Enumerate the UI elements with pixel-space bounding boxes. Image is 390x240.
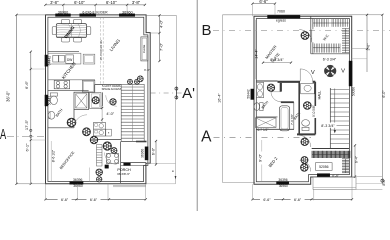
wall hall bath west xyxy=(298,82,300,135)
dim tick xyxy=(282,198,284,200)
porch B inner line xyxy=(313,187,356,189)
svg-text:8'-3 3/4": 8'-3 3/4" xyxy=(321,124,335,128)
dryer xyxy=(94,129,106,136)
wall hall north xyxy=(95,83,121,85)
table wood grain xyxy=(57,24,86,37)
dim line 6'-4 vertical xyxy=(354,145,356,176)
svg-text:36'-0": 36'-0" xyxy=(6,91,11,102)
dim tick top xyxy=(126,4,128,6)
dim tick xyxy=(30,68,32,70)
wall hall south xyxy=(94,139,121,141)
plants above stairs xyxy=(127,79,133,85)
kitchen counter top xyxy=(48,53,81,64)
vanity master double xyxy=(256,82,263,97)
svg-text:B: B xyxy=(201,22,211,39)
svg-text:4'-0": 4'-0" xyxy=(106,111,114,116)
hall vanity xyxy=(301,83,315,93)
svg-text:36396: 36396 xyxy=(278,178,287,182)
dim ext top right xyxy=(352,14,382,16)
closet shelves xyxy=(97,145,103,166)
dim tick xyxy=(155,163,157,165)
section line B dash-dot xyxy=(213,29,390,31)
dim tick xyxy=(158,14,160,16)
dim tick xyxy=(155,140,157,142)
svg-text:A: A xyxy=(201,128,212,145)
dim tick xyxy=(15,183,17,185)
dim tick xyxy=(15,14,17,16)
plant master bath xyxy=(267,84,275,92)
dim line right vertical xyxy=(159,15,161,61)
line to section A' xyxy=(175,15,177,87)
window slider 6-0X6-8 top xyxy=(80,14,96,17)
dim ext vertical xyxy=(62,5,64,15)
lower floor outline bottom xyxy=(223,182,256,184)
dim tick xyxy=(158,60,160,62)
svg-text:6-7 1/2": 6-7 1/2" xyxy=(257,128,268,132)
svg-text:SPACE ACCESS: SPACE ACCESS xyxy=(102,87,122,91)
door arc bed2 xyxy=(300,161,311,172)
svg-text:4'-0": 4'-0" xyxy=(158,19,163,28)
svg-text:14'-4": 14'-4" xyxy=(254,49,258,59)
sheet divider line xyxy=(196,0,198,211)
stair left wall B xyxy=(329,88,331,149)
window 36960 bottom wall xyxy=(70,182,83,185)
media cabinet xyxy=(141,37,148,61)
dim ext 48.7 xyxy=(352,48,367,50)
plants bed/office xyxy=(96,169,103,176)
toilet hall bath xyxy=(302,127,309,130)
dim tick xyxy=(354,144,356,146)
svg-text:V: V xyxy=(311,70,315,76)
svg-text:A': A' xyxy=(182,85,195,102)
dim ext right corner xyxy=(146,14,176,16)
porch deck edge xyxy=(113,184,146,186)
plant bed2 door xyxy=(301,156,309,164)
svg-text:50056: 50056 xyxy=(352,87,356,96)
window 64442 left wall upper xyxy=(45,55,48,66)
water heater box xyxy=(106,129,112,136)
dim text 6'-6" xyxy=(58,197,72,202)
WC hatch right (clothes) xyxy=(342,28,349,30)
dim tick top xyxy=(44,4,46,6)
wall kitchen north xyxy=(48,51,79,53)
door threshold black xyxy=(105,165,109,168)
dim tick xyxy=(76,198,78,200)
svg-text:6'-6": 6'-6" xyxy=(61,198,69,202)
svg-text:16'-4": 16'-4" xyxy=(217,93,221,103)
svg-text:36960: 36960 xyxy=(140,149,144,158)
stair treads B xyxy=(330,89,349,91)
dim ext y140 xyxy=(31,139,46,141)
line x175.5 lower xyxy=(175,100,177,184)
dim ext verticals top B xyxy=(252,4,254,17)
svg-text:52056: 52056 xyxy=(319,165,329,169)
svg-text:6'-10": 6'-10" xyxy=(74,0,85,5)
dim tick xyxy=(251,198,253,200)
dim line interior left vertical xyxy=(30,52,32,184)
wall bath1 north xyxy=(48,90,89,92)
svg-text:50442: 50442 xyxy=(246,89,250,98)
svg-text:6'-6": 6'-6" xyxy=(90,198,98,202)
dim arrows 8-8 xyxy=(263,62,291,64)
window 36960 right wall porch xyxy=(145,147,148,160)
door arc hall entry xyxy=(106,95,117,106)
window tag 52056 box xyxy=(316,163,333,171)
dim ext vertical xyxy=(126,5,128,15)
dim ext vertical xyxy=(95,5,97,15)
svg-text:6'-6": 6'-6" xyxy=(294,198,302,202)
closet hatch side xyxy=(342,158,349,160)
wall: plan A exterior outer face xyxy=(46,15,151,184)
kitchen sink xyxy=(53,55,59,62)
dim small line hall xyxy=(101,105,103,122)
wall hall mid xyxy=(102,92,104,106)
dim line bed2 interior xyxy=(261,140,263,182)
wall hall bath south xyxy=(297,133,315,135)
svg-text:media: media xyxy=(142,45,146,54)
svg-text:3'-0": 3'-0" xyxy=(144,68,150,72)
wall mbath mid xyxy=(256,116,277,118)
kitchen peninsula xyxy=(83,54,95,64)
WC hatch top (clothes) xyxy=(312,19,314,27)
toilet bath1 xyxy=(50,93,57,96)
dim text 6'-6" xyxy=(291,197,305,202)
stove with burners xyxy=(54,80,69,88)
stair up line with arrow xyxy=(334,89,336,131)
section line A' dash-dot xyxy=(151,92,183,94)
plant hall south door xyxy=(301,138,309,146)
plants hall south xyxy=(82,127,91,136)
svg-text:6'-0": 6'-0" xyxy=(382,90,386,98)
window 50442 left wall xyxy=(251,89,254,100)
dim tick xyxy=(310,198,312,200)
svg-text:36 3/8'-6": 36 3/8'-6" xyxy=(117,172,130,176)
ceiling fan xyxy=(325,66,335,76)
bathtub xyxy=(279,106,289,131)
dim text 9'-0 rotated xyxy=(259,152,264,165)
svg-text:3'-8": 3'-8" xyxy=(132,0,141,5)
dim tick xyxy=(108,198,110,200)
svg-text:DW: DW xyxy=(67,58,72,62)
dim ext top-left xyxy=(17,14,46,16)
dim tick xyxy=(30,183,32,185)
wall master SE vertical xyxy=(280,83,282,92)
stair landing wall xyxy=(312,148,350,150)
svg-text:6'-6": 6'-6" xyxy=(259,0,268,4)
door arc WC xyxy=(299,30,312,43)
wall tub east xyxy=(293,102,295,129)
svg-text:36960: 36960 xyxy=(58,10,69,14)
dim ext 183.7 xyxy=(356,183,382,185)
wall WC south xyxy=(311,53,350,55)
wall mbath south xyxy=(256,128,294,130)
dim tick xyxy=(145,198,147,200)
stair treads xyxy=(121,86,144,88)
dim text 6'-6" xyxy=(260,197,274,202)
wall: plan B exterior outer face xyxy=(254,16,352,184)
svg-text:6'-1": 6'-1" xyxy=(25,143,30,152)
svg-text:8'-6 1/2": 8'-6 1/2" xyxy=(52,149,56,162)
dim ext bottom-left xyxy=(17,183,46,185)
kitchen counter bottom edge xyxy=(48,79,95,81)
beam lines dashed pair xyxy=(99,17,101,84)
window bottom-right of B xyxy=(317,174,330,177)
wall hall west xyxy=(94,84,96,92)
svg-text:6'-6": 6'-6" xyxy=(263,198,271,202)
svg-text:6'-10": 6'-10" xyxy=(106,0,117,5)
svg-text:36'-0 clg joist abv: 36'-0 clg joist abv xyxy=(99,39,103,60)
svg-text:HALL: HALL xyxy=(317,91,321,100)
wall mbath north xyxy=(256,80,277,82)
section line A dash-dot xyxy=(214,136,312,138)
dim ext interior bed/office xyxy=(89,168,91,182)
svg-text:3'-8": 3'-8" xyxy=(50,0,59,5)
svg-text:6-0X6-8 SLIDER: 6-0X6-8 SLIDER xyxy=(82,10,108,14)
washer xyxy=(94,122,106,129)
dim ext bottom verticals B xyxy=(252,184,254,200)
dim tick xyxy=(274,3,276,5)
stair rail xyxy=(132,84,134,141)
dim tick xyxy=(30,139,32,141)
dim ext porch walls xyxy=(147,162,176,164)
svg-text:6'-4": 6'-4" xyxy=(355,155,359,163)
svg-text:A: A xyxy=(0,127,6,143)
dim line x367 xyxy=(366,15,368,72)
dim ext 176 xyxy=(352,176,383,178)
dim tick xyxy=(44,198,46,200)
wall bath1 south xyxy=(48,127,74,129)
dim line bottom B xyxy=(253,198,353,200)
dim tick xyxy=(381,14,383,16)
svg-text:V: V xyxy=(341,69,345,75)
dim tick top xyxy=(144,4,146,6)
svg-text:36960: 36960 xyxy=(73,184,83,188)
plants stair bottom xyxy=(103,141,112,150)
dim line top xyxy=(45,4,144,6)
stair well outline xyxy=(121,84,144,141)
pedestal sink xyxy=(48,111,55,119)
svg-text:6'-3 3/4": 6'-3 3/4" xyxy=(323,58,337,62)
dim line master interior xyxy=(254,20,256,79)
porch B outline xyxy=(313,177,356,189)
window bottom-left of B xyxy=(277,182,289,185)
dim line top B xyxy=(253,3,276,5)
marker bubbles on dim line xyxy=(30,129,32,131)
dim line bed/office interior xyxy=(50,141,52,182)
dim ext bottom verticals xyxy=(45,184,47,201)
window 7060 top xyxy=(268,15,301,18)
dining chairs bottom xyxy=(62,38,70,42)
dim tick xyxy=(251,3,253,5)
lower floor outline left xyxy=(222,15,224,183)
closet hatch dense xyxy=(311,151,313,158)
wall bed/office east xyxy=(120,142,122,184)
svg-text:7'-0": 7'-0" xyxy=(158,42,163,51)
shower with X xyxy=(74,92,89,109)
wall bath1 east lower xyxy=(73,110,75,128)
svg-text:9'-0 5/8": 9'-0 5/8" xyxy=(312,105,316,117)
corner fixture with plant xyxy=(90,92,101,108)
door arc master entry xyxy=(300,69,312,81)
dim line porch right xyxy=(155,141,157,165)
svg-text:8'-8 3/4": 8'-8 3/4" xyxy=(270,58,284,62)
dim tick top xyxy=(95,4,97,6)
svg-text:17'-5": 17'-5" xyxy=(24,119,29,130)
dim ext porch bottom xyxy=(356,189,382,191)
svg-text:9'-0": 9'-0" xyxy=(258,153,263,162)
dim line 36'-0" vertical xyxy=(16,15,18,184)
lower floor outline top xyxy=(223,14,353,16)
wall over tub xyxy=(281,101,294,103)
plant right of media xyxy=(137,76,144,83)
toilet master xyxy=(260,103,263,111)
svg-text:egress: egress xyxy=(276,19,286,23)
dim text 8'-3 3/4 on stairs xyxy=(320,123,337,128)
dim text 6'-6" xyxy=(87,197,101,202)
door arc stair bottom xyxy=(105,153,117,165)
plant on fixture xyxy=(92,96,100,104)
svg-text:50442: 50442 xyxy=(47,96,51,106)
dim ext 58.8 xyxy=(352,58,367,60)
section line A dash-dot xyxy=(7,135,46,137)
vanity2 with X xyxy=(255,118,276,128)
dining chairs ends xyxy=(52,27,56,35)
plant at bath1 door xyxy=(67,118,77,128)
dim tick xyxy=(366,48,368,50)
dim line x382 xyxy=(381,15,383,184)
dim ext jog xyxy=(150,32,159,34)
wall porch north xyxy=(121,162,146,164)
svg-text:6'-0": 6'-0" xyxy=(152,147,156,155)
window 50442 left wall lower xyxy=(45,95,48,106)
dishwasher DW xyxy=(66,55,74,63)
door arc bath1 xyxy=(74,115,87,128)
dim tick xyxy=(354,176,356,178)
dim line bottom xyxy=(46,198,146,200)
wall: plan A exterior inner face xyxy=(48,17,148,181)
window 36960 top-left xyxy=(56,14,71,17)
svg-text:7060: 7060 xyxy=(277,10,285,14)
window porch interior wall xyxy=(124,163,131,166)
window 36960 top-right xyxy=(119,14,135,17)
refrigerator xyxy=(82,80,94,92)
WC hatch bottom (clothes) xyxy=(312,44,314,53)
desk with chairs xyxy=(107,153,119,163)
dining chairs top xyxy=(62,19,70,23)
svg-text:36396: 36396 xyxy=(73,178,83,182)
plant hall bath xyxy=(303,101,312,110)
dim tick xyxy=(366,14,368,16)
wall: plan B exterior inner face xyxy=(256,19,349,182)
wall WC west xyxy=(310,16,312,54)
dining table xyxy=(56,24,86,38)
wall master/hall-bath thick xyxy=(278,81,301,83)
dim tick top xyxy=(62,4,64,6)
dim tick xyxy=(351,198,353,200)
svg-text:3'-0": 3'-0" xyxy=(366,43,370,51)
wall hall bath east xyxy=(314,82,316,106)
dim tick xyxy=(30,51,32,53)
svg-text:6'-6": 6'-6" xyxy=(24,80,29,89)
door arc master bath xyxy=(271,92,281,102)
svg-text:36960: 36960 xyxy=(279,184,288,188)
plant hall xyxy=(109,98,116,105)
dim ext y69 xyxy=(31,68,45,70)
marker circle x382 xyxy=(381,179,384,182)
window 50056 right wall xyxy=(349,61,352,86)
dim tick xyxy=(158,32,160,34)
section A' symbol xyxy=(175,87,178,100)
door arc hall south xyxy=(299,135,311,147)
plant WC door xyxy=(301,31,310,40)
